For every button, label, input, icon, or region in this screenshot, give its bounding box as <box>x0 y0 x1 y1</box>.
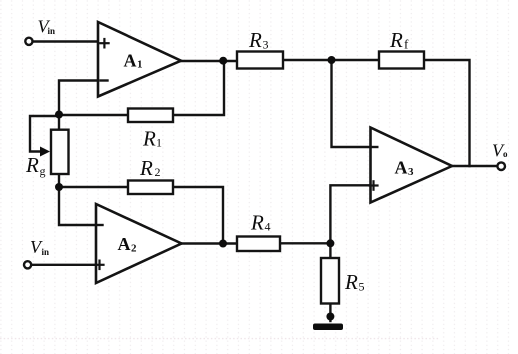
wire R4 right to node N4 <box>280 242 330 244</box>
svg-text:R: R <box>248 28 262 52</box>
svg-text:3: 3 <box>263 38 269 52</box>
wire R5 bottom to ground <box>329 304 331 322</box>
wire A2 output to R4 <box>182 242 238 244</box>
junction A1 output node <box>219 57 227 65</box>
label R1 <box>142 127 162 151</box>
op-amp A2 <box>96 204 182 283</box>
svg-text:in: in <box>42 247 50 257</box>
wire A1 - input to node N1 <box>59 81 99 113</box>
svg-text:A: A <box>395 158 408 178</box>
svg-text:R: R <box>344 270 358 294</box>
svg-text:2: 2 <box>131 243 137 255</box>
wire node N4 up to A3 + input <box>330 185 370 243</box>
wire R3 right to node N3 and Rf left <box>283 59 379 61</box>
junction A2 output node <box>219 240 227 248</box>
junction node N4 <box>326 239 334 247</box>
svg-text:g: g <box>40 164 46 178</box>
label R4 <box>250 211 271 235</box>
label R5 <box>344 270 365 294</box>
junction node N1 <box>55 111 63 119</box>
wire R2 right down to A2 output node <box>173 187 223 244</box>
terminal Vin2 <box>24 261 31 268</box>
wire Vin1 to A1 + input <box>34 40 100 42</box>
wire Vin2 to A2 + input <box>32 264 96 266</box>
resistor R4 <box>237 237 280 252</box>
wire Rg bottom to node N2 <box>58 174 60 187</box>
svg-text:3: 3 <box>408 166 414 178</box>
svg-text:A: A <box>118 234 131 254</box>
svg-text:R: R <box>142 127 156 151</box>
arrow head of Rg wiper <box>40 147 50 157</box>
svg-text:4: 4 <box>265 220 271 234</box>
label R3 <box>248 28 269 52</box>
resistor R2 <box>128 181 173 195</box>
svg-text:R: R <box>139 156 153 180</box>
op-amp A1 <box>98 22 181 97</box>
svg-text:f: f <box>404 37 409 52</box>
resistor R1 <box>128 109 173 123</box>
resistor Rg (adjustable) <box>51 130 69 174</box>
wire A1 output to R3 <box>181 60 237 62</box>
wire Rf right down to A3 output <box>424 60 470 166</box>
ground symbol <box>313 324 343 331</box>
terminal Vin1 <box>25 38 32 45</box>
terminal Vo <box>497 162 505 170</box>
wire N1 left to Rg wiper arrow <box>30 116 59 152</box>
svg-text:R: R <box>389 28 403 52</box>
junction node N3 <box>328 56 336 64</box>
label A2 <box>118 234 138 255</box>
svg-text:o: o <box>503 149 508 159</box>
label Vo (output) <box>492 141 508 161</box>
svg-text:R: R <box>250 211 264 235</box>
wire node N2 to R2 left <box>59 186 128 188</box>
wire node N3 down to A3 - input <box>332 60 371 147</box>
wire N2 down to A2 - input <box>59 187 96 225</box>
wire N1 down to Rg top <box>58 115 60 130</box>
svg-text:5: 5 <box>359 280 365 294</box>
op-amp A3 <box>370 128 453 203</box>
junction above ground <box>326 313 334 321</box>
wire R1 right up to A1 output node <box>173 61 224 115</box>
resistor R5 <box>321 258 339 304</box>
svg-text:A: A <box>124 51 137 71</box>
svg-text:1: 1 <box>137 59 143 71</box>
label Rg <box>25 153 46 178</box>
junction node N2 <box>55 183 63 191</box>
wire node N1 to R1 left <box>59 114 128 116</box>
label A3 <box>395 158 415 179</box>
label Vin (top input) <box>38 17 56 37</box>
svg-text:2: 2 <box>155 165 161 179</box>
resistor Rf <box>379 52 424 69</box>
resistor R3 <box>237 52 283 69</box>
label R2 <box>139 156 161 180</box>
label A1 <box>124 51 143 71</box>
wire node N4 down to R5 top <box>329 243 331 258</box>
label Vin (bottom input) <box>30 237 49 257</box>
label Rf <box>389 28 409 52</box>
svg-text:1: 1 <box>156 136 162 150</box>
wire A3 output to Vo terminal <box>452 165 497 167</box>
svg-text:in: in <box>48 26 56 36</box>
svg-text:R: R <box>25 153 39 177</box>
